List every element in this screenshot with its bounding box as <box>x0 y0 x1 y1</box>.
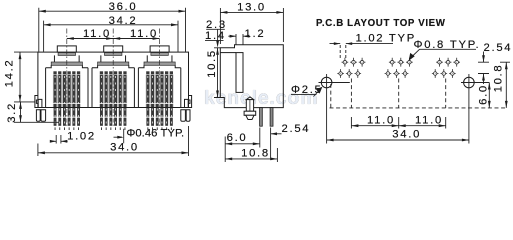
svg-text:1.02 TYP: 1.02 TYP <box>356 33 417 45</box>
svg-text:1.02: 1.02 <box>67 131 96 143</box>
side body inner step line <box>220 52 236 54</box>
dimension 0.8 TYP <box>409 39 481 61</box>
dimension 34.0 bottom <box>327 128 469 141</box>
pin 2 side view <box>270 108 273 127</box>
svg-text:11.0: 11.0 <box>83 28 111 40</box>
label diameter 2.5 <box>291 84 323 97</box>
svg-text:2.54: 2.54 <box>484 42 513 54</box>
dimension 11.0 x2 <box>67 28 160 40</box>
dimension 14.2 <box>4 52 38 102</box>
dimension 1.2 <box>228 28 265 45</box>
pin 1 side view <box>260 108 263 127</box>
mounting hole right <box>464 77 475 88</box>
left latch arm <box>36 99 42 107</box>
pad cluster 2 <box>385 58 413 78</box>
dimension 0.46 <box>114 127 185 143</box>
svg-text:1.2: 1.2 <box>245 28 266 40</box>
dashed outline <box>330 107 507 109</box>
pad cluster 1 <box>337 58 365 78</box>
right ear <box>189 96 192 108</box>
left ear <box>35 96 38 108</box>
svg-text:2.54: 2.54 <box>282 123 311 135</box>
dimension 10.5 <box>206 48 221 98</box>
dimension 11.0 x2 bottom <box>351 115 445 129</box>
dimension 2.54 side <box>271 123 311 160</box>
svg-text:10.8: 10.8 <box>492 64 504 93</box>
svg-text:36.0: 36.0 <box>109 1 138 13</box>
latch slot side view <box>236 53 243 93</box>
svg-text:13.0: 13.0 <box>237 1 266 13</box>
svg-text:11.0: 11.0 <box>130 28 158 40</box>
dimension 1.4 <box>205 29 226 47</box>
dimension 6.0 right <box>477 83 490 108</box>
dimension 10.8 right <box>492 62 510 108</box>
svg-text:P.C.B LAYOUT TOP VIEW: P.C.B LAYOUT TOP VIEW <box>316 18 446 29</box>
svg-text:10.8: 10.8 <box>241 147 270 159</box>
hole centerlines <box>327 74 469 144</box>
dimension 2.54 top <box>478 42 512 84</box>
jack 1 <box>46 29 88 131</box>
svg-text:11.0: 11.0 <box>367 115 395 127</box>
svg-text:6.0: 6.0 <box>477 84 489 105</box>
dimension 34.2 <box>44 15 178 52</box>
mounting post side view <box>246 97 253 100</box>
svg-text:34.0: 34.0 <box>110 142 139 154</box>
jack 3 <box>138 29 180 131</box>
svg-text:Φ0.46 TYP.: Φ0.46 TYP. <box>126 127 184 139</box>
right latch arm <box>185 99 191 107</box>
pad cluster 3 <box>432 58 460 78</box>
right foot <box>181 110 186 122</box>
mounting hole left <box>321 77 332 88</box>
left foot <box>36 110 40 122</box>
dimension 10.8 <box>225 147 277 162</box>
dimension 1.02 TYP <box>330 33 417 45</box>
dimension 36.0 <box>39 1 186 52</box>
svg-text:14.2: 14.2 <box>4 59 16 88</box>
svg-text:6.0: 6.0 <box>227 132 248 144</box>
dimension 2.3 <box>206 19 227 31</box>
dimension 13.0 <box>220 1 283 44</box>
dimension 6.0 <box>225 128 260 148</box>
side view body outline <box>220 45 283 108</box>
dimension 1.02 <box>50 131 96 144</box>
dimension 34.0 front <box>38 126 189 156</box>
jack 2 <box>92 29 134 131</box>
svg-text:3.2: 3.2 <box>6 102 18 123</box>
svg-text:10.5: 10.5 <box>206 49 218 78</box>
svg-text:11.0: 11.0 <box>415 115 443 127</box>
svg-text:34.2: 34.2 <box>109 15 138 27</box>
svg-text:34.0: 34.0 <box>392 128 421 140</box>
body outline front view <box>38 52 189 107</box>
dimension 3.2 <box>6 102 59 123</box>
